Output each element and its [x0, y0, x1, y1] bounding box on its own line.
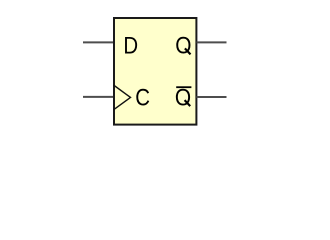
- svg-text:D: D: [123, 32, 138, 59]
- D flip-flop body U1: [114, 18, 196, 125]
- wire clock input: [83, 96, 113, 98]
- svg-text:C: C: [135, 84, 150, 111]
- wire Q-bar output: [197, 96, 227, 98]
- clock edge-trigger triangle: [114, 85, 131, 110]
- overbar of Q-bar: [176, 86, 191, 88]
- wire D input: [83, 41, 113, 43]
- wire Q output: [197, 41, 227, 43]
- svg-text:O: O: [175, 32, 191, 59]
